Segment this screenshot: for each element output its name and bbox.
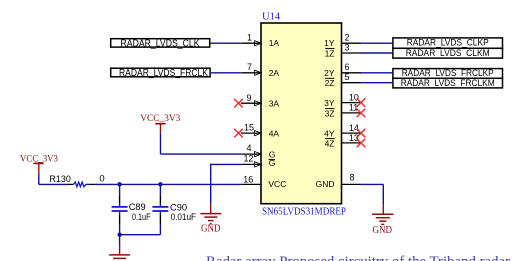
svg-text:1: 1: [247, 33, 252, 43]
svg-text:VCC: VCC: [268, 179, 286, 189]
svg-text:14: 14: [349, 123, 359, 133]
junction at C90: [158, 182, 162, 186]
wire VCC mid drop: [160, 134, 162, 155]
pin 11 stub no-connect: [342, 109, 366, 118]
svg-text:4A: 4A: [269, 128, 280, 138]
wire net CLK box to pin 1: [211, 42, 242, 44]
svg-text:R130: R130: [49, 174, 71, 185]
pin 16 stub: [242, 183, 261, 185]
pin number 7: [247, 62, 252, 72]
pin 13 stub no-connect: [342, 139, 366, 148]
svg-text:2A: 2A: [269, 68, 280, 78]
wire cap bottoms: [120, 234, 161, 236]
capacitor C89: [112, 184, 128, 234]
svg-text:RADAR_LVDS_CLKM: RADAR_LVDS_CLKM: [406, 48, 490, 59]
svg-text:RADAR_LVDS_FRCLKM: RADAR_LVDS_FRCLKM: [401, 78, 495, 89]
svg-text:0: 0: [99, 174, 104, 185]
svg-text:4Z: 4Z: [325, 138, 335, 148]
svg-text:2Y: 2Y: [324, 68, 335, 78]
svg-text:GND: GND: [373, 225, 393, 236]
svg-text:8: 8: [350, 173, 355, 183]
wire VCC left drop: [38, 173, 40, 184]
label R130: [49, 174, 71, 185]
ground mid (pin 12): [200, 203, 221, 234]
svg-text:0.1uF: 0.1uF: [132, 212, 151, 223]
svg-text:13: 13: [349, 133, 359, 143]
pin number 14: [349, 123, 359, 133]
label C90: [170, 203, 187, 214]
resistor R130: [68, 182, 96, 187]
svg-text:6: 6: [345, 62, 350, 72]
pin 8 stub and wire to ground: [342, 184, 384, 204]
U14 refdes: [262, 12, 281, 23]
svg-text:1Z: 1Z: [325, 48, 335, 58]
pin name 1Y: [324, 38, 335, 48]
svg-text:RADAR_LVDS_CLKP: RADAR_LVDS_CLKP: [407, 37, 489, 48]
svg-text:15: 15: [244, 123, 254, 133]
junction at cap bottom: [117, 233, 121, 237]
IC U14 SN65LVDS31MDREP body: [261, 23, 342, 204]
no-connect X pin 9: [234, 99, 243, 108]
svg-text:9: 9: [246, 93, 251, 103]
svg-text:4: 4: [246, 143, 251, 153]
wire net FRCLK box to pin 7: [211, 72, 242, 74]
pin number 6: [345, 62, 350, 72]
pin number 9: [246, 93, 251, 103]
pin number 11: [349, 103, 358, 113]
net label box RADAR_LVDS_CLK: [111, 38, 210, 49]
pin number 1: [247, 33, 252, 43]
pin 5 stub and wire: [342, 82, 393, 84]
pin name 2Y: [324, 68, 335, 78]
pin name 1A: [269, 38, 280, 48]
svg-text:VCC_3V3: VCC_3V3: [140, 114, 180, 124]
pin name 3A: [269, 98, 280, 108]
pin name 4A: [269, 128, 280, 138]
svg-text:1Y: 1Y: [324, 38, 335, 48]
value 0: [99, 174, 104, 185]
svg-text:5: 5: [345, 72, 350, 82]
junction at R-C89: [117, 182, 121, 186]
pin name 1Z-bar: [325, 48, 335, 58]
ground bottom-left: [109, 246, 130, 259]
svg-text:GND: GND: [201, 224, 221, 235]
caption (cropped): [206, 254, 510, 261]
pin name GND: [316, 179, 335, 189]
pin number 5: [345, 72, 350, 82]
svg-text:7: 7: [247, 62, 252, 72]
pin name 3Y: [324, 98, 335, 108]
svg-text:12: 12: [243, 154, 253, 164]
pin number 2: [345, 32, 350, 42]
wire rail resistor to pin 16: [96, 183, 242, 185]
pin 1 stub: [242, 41, 261, 46]
svg-text:10: 10: [349, 92, 359, 102]
pin 9 stub no-connect: [241, 101, 261, 106]
pin 14 stub no-connect: [342, 129, 366, 138]
value SN65LVDS31MDREP: [262, 206, 346, 218]
svg-text:3Y: 3Y: [324, 98, 335, 108]
pin 6 stub and wire: [342, 72, 393, 74]
value 0.1uF: [132, 212, 151, 223]
svg-text:11: 11: [349, 103, 358, 113]
wire to bottom ground: [119, 235, 121, 246]
pin 2 stub and wire: [342, 42, 393, 44]
svg-text:Radar array Proposed circuitry: Radar array Proposed circuitry of the Tr…: [206, 254, 510, 261]
value 0.01uF: [171, 212, 197, 223]
svg-text:U14: U14: [262, 12, 281, 23]
pin name 2Z-bar: [325, 78, 335, 88]
svg-text:3A: 3A: [269, 98, 280, 108]
pin number 13: [349, 133, 359, 143]
svg-text:3: 3: [345, 43, 350, 53]
net label box RADAR_LVDS_CLKM: [393, 48, 503, 59]
pin 4 stub: [242, 152, 261, 157]
svg-text:2Z: 2Z: [325, 78, 335, 88]
wire VCC to pin 4: [161, 153, 242, 155]
svg-text:16: 16: [243, 175, 253, 185]
pin number 4: [246, 143, 251, 153]
svg-text:3Z: 3Z: [325, 108, 335, 118]
net label box RADAR_LVDS_CLKP: [393, 37, 503, 48]
pin name 3Z-bar: [325, 108, 335, 118]
ground right (pin 8): [372, 205, 393, 236]
pin number 16: [243, 175, 253, 185]
pin 7 stub: [242, 70, 261, 75]
svg-text:SN65LVDS31MDREP: SN65LVDS31MDREP: [262, 206, 346, 218]
svg-text:1A: 1A: [269, 38, 280, 48]
svg-text:2: 2: [345, 32, 350, 42]
svg-text:4Y: 4Y: [324, 128, 335, 138]
net label box RADAR_LVDS_FRCLKM: [393, 78, 503, 89]
pin number 3: [345, 43, 350, 53]
pin name 2A: [269, 68, 280, 78]
pin name 4Y: [324, 128, 335, 138]
VCC_3V3 power symbol left: [20, 154, 58, 173]
wire pin 12 to GND drop: [211, 164, 242, 204]
net label box RADAR_LVDS_FRCLKP: [393, 68, 503, 79]
pin name G: [269, 149, 276, 159]
label C89: [129, 202, 146, 213]
pin 12 stub: [242, 162, 261, 167]
pin name VCC: [268, 179, 286, 189]
capacitor C90: [152, 184, 168, 234]
VCC_3V3 power symbol mid: [140, 114, 180, 133]
pin 3 stub and wire: [342, 52, 393, 54]
pin name 4Z-bar: [325, 138, 335, 148]
pin number 10: [349, 92, 359, 102]
svg-text:GND: GND: [316, 179, 335, 189]
pin number 8: [350, 173, 355, 183]
svg-text:0.01uF: 0.01uF: [171, 212, 197, 223]
no-connect X pin 15: [234, 129, 243, 138]
net label box RADAR_LVDS_FRCLK: [111, 68, 210, 79]
svg-text:RADAR_LVDS_FRCLK: RADAR_LVDS_FRCLK: [119, 68, 208, 79]
pin number 15: [244, 123, 254, 133]
wire rail left of resistor: [39, 183, 68, 185]
pin 10 stub no-connect: [342, 98, 366, 107]
svg-text:RADAR_LVDS_CLK: RADAR_LVDS_CLK: [121, 38, 200, 49]
pin 15 stub no-connect: [241, 131, 261, 136]
pin name G-bar: [269, 158, 276, 168]
pin number 12: [243, 154, 253, 164]
